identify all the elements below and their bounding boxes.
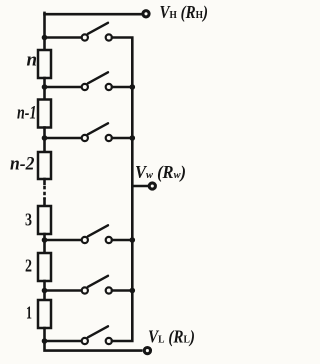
node: tap between 3 and 2 bbox=[42, 237, 48, 243]
resistor n-2 bbox=[38, 152, 51, 179]
switch S5 arm bbox=[88, 276, 108, 287]
wire: S4 to wiper bus bbox=[112, 239, 131, 242]
node: tap between n-1 and n-2 bbox=[42, 135, 48, 141]
terminal VH bbox=[143, 11, 149, 17]
wire: switch S5 tap bbox=[45, 289, 82, 292]
switch S5 contact b bbox=[106, 287, 112, 293]
wire: between resistor n and n-1 bbox=[43, 78, 46, 100]
switch S2 contact b bbox=[106, 84, 112, 90]
terminal VL bbox=[144, 348, 150, 354]
svg-text:n-2: n-2 bbox=[10, 154, 35, 175]
wire: S2 to wiper bus bbox=[112, 86, 131, 89]
switch S3 arm bbox=[88, 123, 108, 134]
switch S6 arm bbox=[88, 326, 108, 337]
switch S6 contact b bbox=[106, 338, 112, 344]
wire: switch S4 tap bbox=[45, 239, 82, 242]
node: bus junction row 3 bbox=[130, 135, 136, 141]
wire: stub above resistor 3 bbox=[43, 199, 46, 207]
resistor n-1 bbox=[38, 100, 51, 128]
wire: wiper bus (S1 corner, down, S6 corner) bbox=[112, 38, 132, 342]
node: tap between 2 and 1 bbox=[42, 288, 48, 294]
resistor 3 bbox=[38, 206, 51, 234]
switch S2 contact a bbox=[82, 84, 88, 90]
node: bus junction row 4 bbox=[130, 237, 136, 243]
wire: switch S6 tap bbox=[45, 340, 82, 343]
wire: top rail from chain top to VH terminal bbox=[45, 13, 143, 16]
wire: switch S1 tap bbox=[45, 36, 82, 39]
svg-text:1: 1 bbox=[26, 303, 32, 323]
wire: left chain, top segment bbox=[43, 13, 46, 51]
switch S4 arm bbox=[88, 225, 108, 236]
wire: S3 to wiper bus bbox=[112, 137, 131, 140]
wire: between resistor n-1 and n-2 bbox=[43, 128, 46, 153]
switch S3 contact a bbox=[82, 135, 88, 141]
wire: switch S3 tap bbox=[45, 137, 82, 140]
node: tap below resistor 1 bbox=[42, 338, 48, 344]
switch S1 contact a bbox=[82, 34, 88, 40]
svg-text:3: 3 bbox=[25, 210, 32, 230]
wire: S5 to wiper bus bbox=[112, 289, 131, 292]
svg-text:2: 2 bbox=[25, 256, 32, 276]
switch S1 contact b bbox=[106, 34, 112, 40]
wire: switch S2 tap bbox=[45, 86, 82, 89]
wire: between resistor 2 and 1 bbox=[43, 281, 46, 300]
switch S5 contact a bbox=[82, 287, 88, 293]
wire: between resistor 3 and 2 bbox=[43, 234, 46, 253]
node: tap above resistor n bbox=[42, 35, 48, 41]
switch S3 contact b bbox=[106, 135, 112, 141]
wire: dashed continuation (omitted resistors) bbox=[43, 186, 46, 200]
resistor n bbox=[38, 50, 51, 78]
svg-text:n-1: n-1 bbox=[17, 103, 37, 124]
switch S4 contact a bbox=[82, 237, 88, 243]
wire: wiper bus stub to VW terminal bbox=[132, 185, 148, 188]
resistor 1 bbox=[38, 300, 51, 328]
switch S1 arm bbox=[88, 23, 108, 34]
node: bus junction row 2 bbox=[130, 84, 136, 90]
svg-text:n: n bbox=[27, 50, 38, 71]
switch S4 contact b bbox=[106, 237, 112, 243]
switch S6 contact a bbox=[82, 338, 88, 344]
switch S2 arm bbox=[88, 72, 108, 83]
node: tap between n and n-1 bbox=[42, 84, 48, 90]
wire: stub below resistor n-2 bbox=[43, 179, 46, 184]
node: bus junction row 5 bbox=[130, 288, 136, 294]
resistor 2 bbox=[38, 253, 51, 281]
terminal VW bbox=[149, 183, 155, 189]
wire: bottom of chain down and right to VL terminal bbox=[45, 328, 142, 351]
